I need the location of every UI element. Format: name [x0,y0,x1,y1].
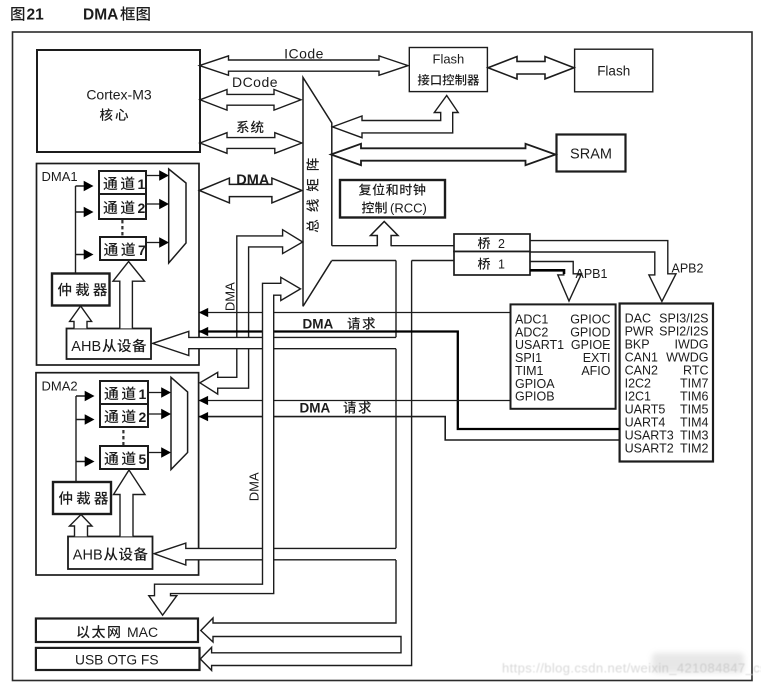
DMA2 arbiter box 仲裁器 [53,482,111,514]
hollow up arrow AHB slave to channel5 (DMA2) [114,470,146,536]
svg-text:UART4: UART4 [625,416,666,430]
DMA2 arbiter tree wires [76,396,85,482]
bus matrix polygon 总线矩阵 [303,78,332,307]
svg-text:DMA1: DMA1 [42,169,78,184]
Cortex-M3 core box [37,50,200,152]
svg-text:1: 1 [139,386,147,402]
svg-text:MAC: MAC [127,624,158,640]
svg-text:I2C1: I2C1 [625,390,651,404]
DMA2 channel 5 box [100,446,148,469]
svg-text:AHB: AHB [71,339,101,355]
hollow up arrow AHB slave to channel7 (DMA1) [113,262,145,329]
svg-text:BKP: BKP [625,338,650,352]
APB2 peripherals box [620,304,713,462]
svg-text:DMA: DMA [303,317,334,332]
svg-text:DMA: DMA [223,282,238,311]
svg-text:CAN2: CAN2 [625,364,658,378]
svg-text:SPI3/I2S: SPI3/I2S [659,312,708,326]
svg-text:WWDG: WWDG [666,351,708,365]
hollow up arrow AHB slave to arbiter (DMA2) [70,515,93,537]
svg-text:SRAM: SRAM [570,147,612,163]
svg-text:USB OTG FS: USB OTG FS [75,653,159,668]
APB1 peripherals box [511,304,616,408]
svg-text:TIM3: TIM3 [680,429,709,443]
vertical DMA label 1 [223,282,238,311]
AHB slave bus into DMA2 AHB box [154,543,397,565]
svg-text:GPIOB: GPIOB [515,390,555,404]
svg-text:CAN1: CAN1 [625,351,658,365]
DMA double arrow [199,178,302,203]
bridge 1 box 桥1 [454,252,530,276]
svg-text:DMA: DMA [83,7,118,24]
system bus double arrow 系统 [200,133,302,154]
svg-text:AHB: AHB [73,548,103,564]
svg-text:UART5: UART5 [625,403,666,417]
svg-text:DMA2: DMA2 [42,379,78,394]
svg-text:TIM4: TIM4 [680,416,709,430]
svg-text:APB2: APB2 [672,261,704,275]
svg-text:1: 1 [138,176,146,192]
svg-text:DMA: DMA [236,173,270,189]
svg-text:Flash: Flash [433,52,465,67]
DMA request wire 4 [199,417,620,440]
DMA1 channel-to-mux wires with arrows [146,175,160,177]
svg-text:USART3: USART3 [625,429,674,443]
DMA2 container box [36,373,199,575]
DMA1 channel 2 box [99,194,146,219]
APB1 hollow bus from bridge1 with down arrow [530,262,582,302]
DCode double arrow [200,90,301,111]
dots between DMA1 channels [121,220,123,235]
SRAM double arrow [331,144,556,165]
DMA1 arbiter box 仲裁器 [52,274,110,306]
AHB system bus channel lines to bridges [332,246,454,261]
DMA2 AHB slave box [68,537,153,570]
DMA1 mux trapezoid [169,169,186,263]
svg-text:2: 2 [498,237,505,251]
DMA2 channel 1 box [100,381,148,404]
DMA2 mux trapezoid [171,377,188,469]
svg-text:APB1: APB1 [576,267,608,281]
svg-text:21: 21 [27,7,45,24]
svg-text:IWDG: IWDG [674,338,708,352]
svg-text:(RCC): (RCC) [390,201,427,216]
svg-text:5: 5 [139,451,147,467]
Flash interface controller box [409,48,487,92]
DMA1 container box [37,164,200,366]
svg-text:I2C2: I2C2 [625,377,651,391]
title 图21 DMA框图 [11,7,24,21]
Ethernet/matrix bus (wide, topmost) with down arrow into Ethernet MAC [149,277,301,615]
DMA request wire 2 (thick, to APB2 box) [199,332,620,430]
svg-text:DAC: DAC [625,312,651,326]
svg-text:TIM6: TIM6 [680,390,709,404]
DMA request wire 1 (peripherals to DMA1) [199,312,512,314]
svg-text:Flash: Flash [597,63,630,78]
DMA request wire 3 (peripherals to DMA2) [199,400,512,402]
svg-text:Cortex-M3: Cortex-M3 [86,87,152,103]
hollow up arrow AHB slave to arbiter (DMA1) [70,306,92,328]
DMA1 channel 1 box [99,171,146,194]
svg-text:1: 1 [498,258,505,272]
APB/AHB vertical bus down to Ethernet MAC and USB OTG FS (hollow arrows) [200,261,411,671]
APB2 hollow bus from bridge2 with down arrow [530,241,676,302]
svg-text:ICode: ICode [284,46,324,62]
RCC box 复位和时钟控制 [340,180,445,218]
svg-text:TIM7: TIM7 [680,377,709,391]
dots between DMA2 channels [122,430,124,445]
DMA1 AHB slave box [67,329,152,360]
Flash bus channel with left arrow into matrix and up arrow into Flash IF [333,96,459,138]
Ethernet MAC box 以太网 MAC [36,619,198,643]
svg-text:DMA: DMA [300,401,331,416]
DMA1 channel 7 box [100,237,146,260]
Flash box [575,49,653,92]
svg-text:2: 2 [138,200,146,216]
DMA2 channel 2 box [100,404,148,427]
svg-text:AFIO: AFIO [581,364,610,378]
svg-text:RTC: RTC [683,364,708,378]
svg-text:TIM5: TIM5 [680,403,709,417]
bus DMA2 to matrix (thin vertical bus with arrowheads both ends) [200,230,303,394]
SRAM box [557,135,626,172]
USB OTG FS box [36,648,200,670]
svg-text:DCode: DCode [232,74,278,90]
DMA1 arbiter tree wires [76,186,85,274]
DMA2 channel-to-mux wires with arrows [148,392,162,394]
RCC up arrow [371,222,399,247]
svg-text:PWR: PWR [625,325,654,339]
svg-text:TIM2: TIM2 [680,442,709,456]
svg-text:7: 7 [138,242,146,258]
svg-text:DMA: DMA [247,472,262,501]
ICode double arrow [200,56,409,75]
watermark [502,661,761,676]
Flash IF to Flash double arrow [488,57,574,79]
svg-text:SPI2/I2S: SPI2/I2S [659,325,708,339]
vertical DMA label 2 [247,472,262,501]
svg-text:USART2: USART2 [625,442,674,456]
svg-text:2: 2 [139,409,147,425]
bridge 2 box 桥2 [454,234,530,252]
AHB slave bus into DMA1 AHB box [153,331,397,355]
